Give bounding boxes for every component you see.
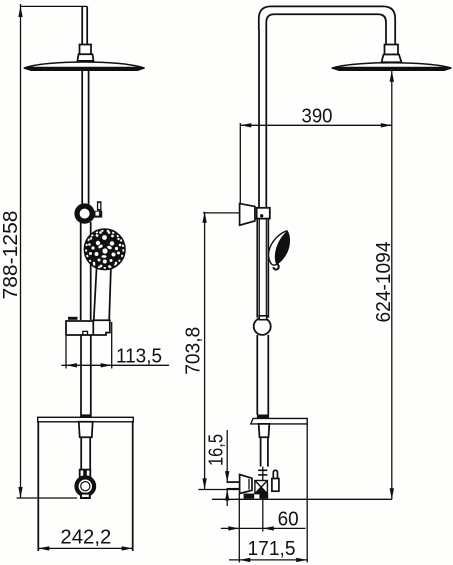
dim 113,5 [62,322,170,369]
bottom extension line [17,497,78,499]
wall plate (front) [38,417,134,422]
valve body square + X (side) [255,481,268,494]
svg-text:242,2: 242,2 [60,527,111,549]
svg-text:113,5: 113,5 [116,346,162,368]
svg-text:788-1258: 788-1258 [0,211,22,300]
pipe below head (front) [81,71,83,206]
flange extension line down [238,494,240,563]
valve handle knob (side) [273,470,277,478]
arrow up top of 788-1258 [18,6,22,17]
collar above head (side) [382,55,402,63]
dark nut bottom-left (side) [244,494,255,499]
slider knob (front) [77,206,92,221]
shelf block (front/side of mixer) [66,320,110,335]
svg-text:703,8: 703,8 [183,327,205,375]
inlet pipe (side) [260,437,262,466]
top extension for 703,8 [203,212,240,214]
svg-text:16,5: 16,5 [206,434,228,466]
svg-text:624-1094: 624-1094 [373,242,395,323]
dim 624-1094 [391,71,393,500]
shower arm inverted U outer [259,6,395,44]
rail below clamp (side) [256,219,258,318]
lower tube to wall plate (front) [80,335,82,417]
rain shower disc (front) [24,67,145,70]
dim 390 [240,124,391,126]
dim 788-1258 vertical line [17,4,88,498]
dim 171,5 [229,559,307,561]
svg-text:390: 390 [302,106,333,128]
shower arm inverted U inner [266,14,386,44]
dim 60 [221,499,306,532]
hand shower (side) outline [269,231,290,265]
upper rail (side) [258,30,260,208]
dark joint at shelf (side) [257,415,269,419]
svg-text:60: 60 [278,508,299,530]
nut above head (side) [385,45,399,55]
inlet elbow circle (front) [77,477,95,495]
threaded section (side) [262,467,264,481]
dim 16,5 [198,430,239,506]
hose hook curl (side) [273,264,278,270]
wall stub pipe (side) [227,481,240,483]
hook fitting right of knob [97,201,102,211]
clamp screw dot [260,214,263,217]
outer column tube (front) [80,222,82,320]
inlet pipe (front) [80,437,82,469]
hand shower (side) dark face [275,231,289,264]
svg-text:171,5: 171,5 [248,538,296,560]
shelf edge extension line down [306,424,308,563]
dark joint above plate (front) [81,414,91,417]
valve tabs (front) [80,470,84,479]
notch under block [83,331,88,335]
top extension line [21,5,88,7]
dim 703,8 [204,212,206,490]
collar above head (front) [78,54,94,61]
elbow bottom tab (front) [81,494,90,498]
connector below shelf (side) [259,424,270,437]
bottom reference line for 624-1094 [212,498,392,500]
slider knob cone (side) [240,204,255,226]
top pipe (front) [81,6,83,44]
shelf (side) [251,418,307,424]
dark tick on block top-left [68,317,78,320]
wall flange (side) [240,475,252,494]
hand shower face (front) [85,230,125,270]
connector below plate (front) [79,422,93,438]
slider ring (side) [254,318,271,335]
ring collar (side) [259,316,267,320]
hand shower handle (front) [94,268,97,320]
rain shower disc (side) [332,67,452,70]
dark nut below valve (side) [259,494,268,499]
big wall rectangle sides [37,422,39,551]
slider clamp (side) [257,208,270,219]
nut above head (front) [80,45,92,55]
dim 242,2 [38,547,132,549]
rail below ring (side) [256,335,258,415]
arrow down bottom of 788-1258 [18,487,22,498]
